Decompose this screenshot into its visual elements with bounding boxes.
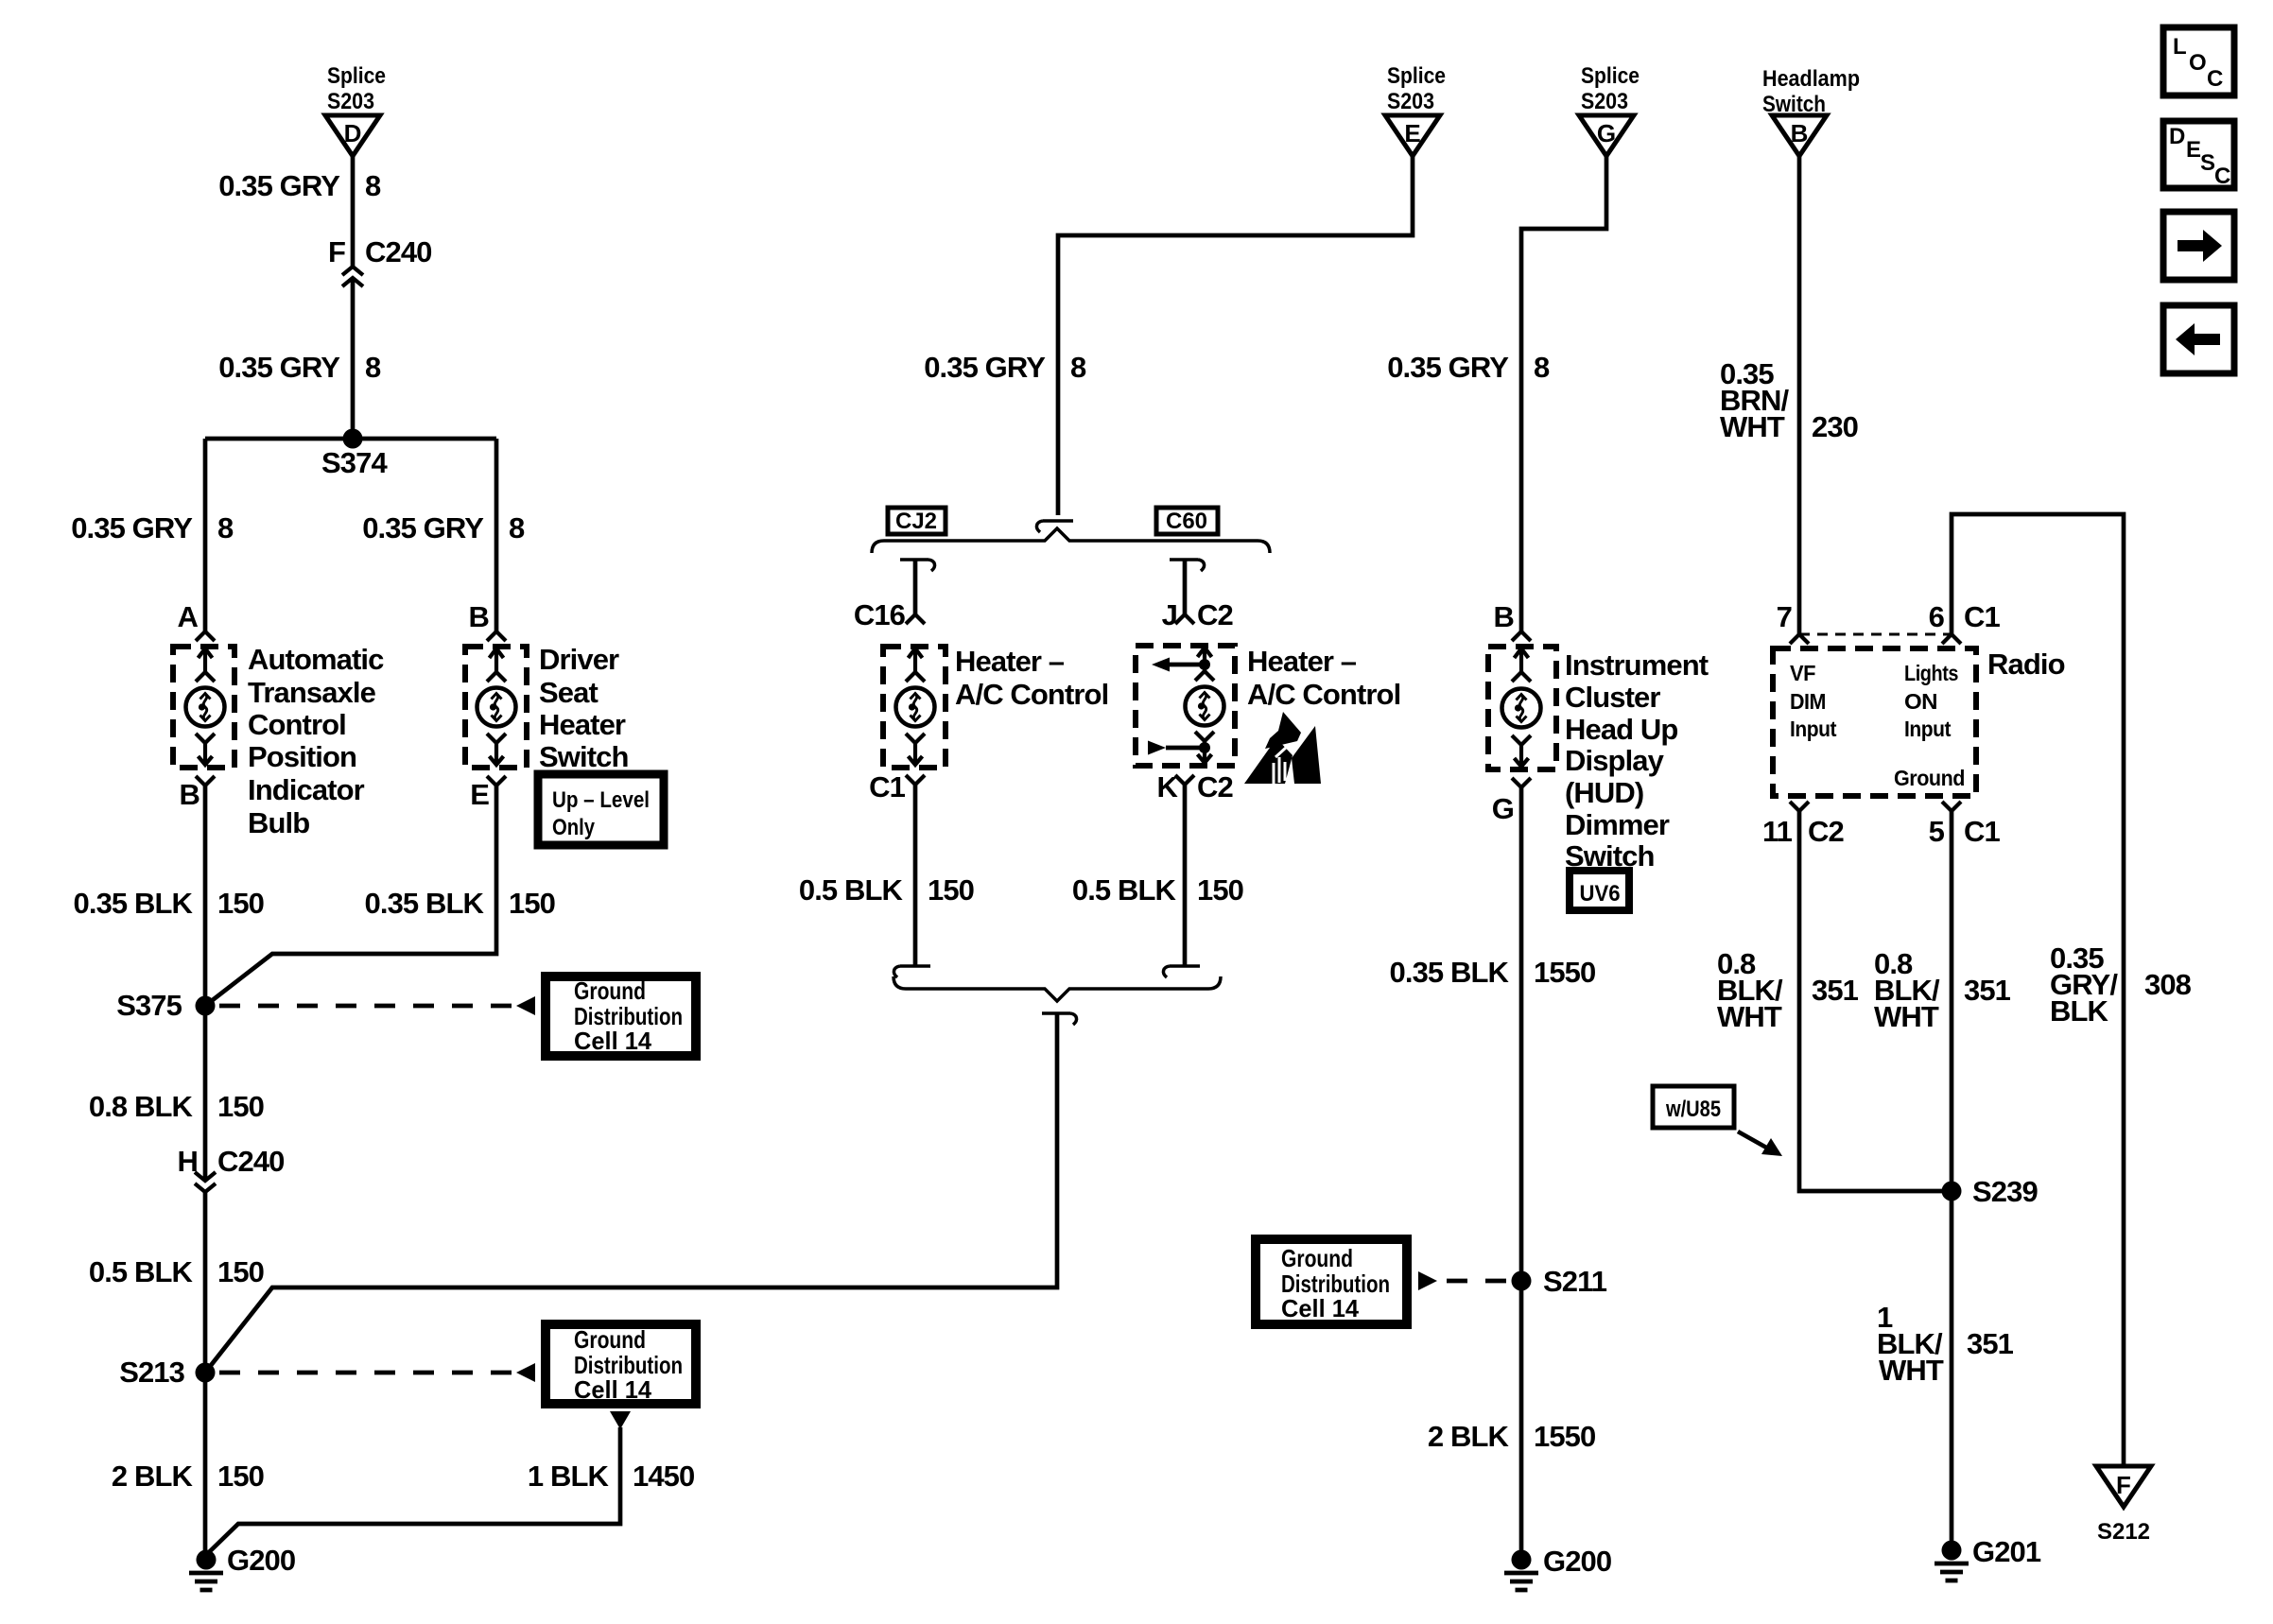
wire E splice to harness [1058, 156, 1413, 515]
pin 7 chevron [1790, 634, 1809, 644]
svg-text:Cell 14: Cell 14 [574, 1375, 652, 1404]
svg-text:WHT: WHT [1879, 1354, 1944, 1387]
svg-text:Instrument: Instrument [1565, 648, 1709, 682]
svg-text:C240: C240 [365, 235, 432, 268]
svg-text:S374: S374 [321, 446, 388, 479]
svg-text:D: D [2169, 124, 2185, 149]
svg-text:0.5 BLK: 0.5 BLK [89, 1255, 194, 1288]
wire S213 to G200 [203, 1373, 208, 1555]
harness stub curl [1036, 521, 1073, 532]
arrow w/U85 [1738, 1132, 1782, 1156]
splice junction S375 [116, 989, 215, 1022]
svg-text:S375: S375 [116, 989, 182, 1022]
svg-text:Splice: Splice [1581, 63, 1640, 89]
wire stub to C16 [913, 560, 918, 614]
svg-text:0.5 BLK: 0.5 BLK [1072, 873, 1177, 907]
wire C240 to S374 [351, 278, 356, 439]
pin B chevron (HUD) [1512, 631, 1531, 641]
svg-text:2 BLK: 2 BLK [112, 1460, 194, 1493]
wire G splice to HUD [1521, 156, 1606, 631]
svg-text:8: 8 [365, 351, 381, 384]
svg-text:Input: Input [1790, 717, 1837, 741]
label 0.5 BLK 150 (left heater) [799, 873, 974, 907]
label 0.35 GRY 8 (HUD feed) [1387, 351, 1550, 384]
pin K chevron [1175, 775, 1194, 785]
svg-text:S203: S203 [1581, 89, 1628, 114]
svg-text:C1: C1 [1964, 600, 2000, 633]
svg-text:150: 150 [217, 887, 264, 920]
svg-text:A/C Control: A/C Control [955, 678, 1108, 711]
svg-text:351: 351 [1964, 974, 2011, 1007]
label 0.8 BLK/WHT 351 (pin 5) [1874, 947, 2011, 1033]
pin 11 label [1762, 815, 1844, 848]
svg-text:Heater –: Heater – [1247, 645, 1357, 678]
wire radio feed [1952, 514, 2124, 1466]
svg-text:VF: VF [1790, 661, 1815, 685]
svg-text:S211: S211 [1543, 1265, 1607, 1298]
svg-text:Input: Input [1904, 717, 1952, 741]
svg-text:C2: C2 [1197, 770, 1233, 803]
label Automatic Transaxle Control Position Indicator Bulb [248, 643, 384, 839]
label 0.35 BLK 150 (col A) [74, 887, 265, 920]
switch S1 Driver Seat Heater Switch [465, 647, 527, 768]
svg-text:B: B [469, 600, 490, 633]
label 0.35 GRY 8 (col B) [362, 511, 525, 544]
svg-text:8: 8 [365, 169, 381, 202]
svg-text:Automatic: Automatic [248, 643, 384, 676]
wire G to S211 [1519, 787, 1524, 1281]
svg-text:8: 8 [1070, 351, 1086, 384]
label 0.8 BLK 150 [89, 1090, 264, 1123]
svg-text:UV6: UV6 [1580, 881, 1621, 907]
splice triangle E [1385, 115, 1440, 156]
label 0.35 BRN/WHT 230 [1720, 357, 1858, 443]
svg-text:Splice: Splice [1387, 63, 1446, 89]
svg-text:Display: Display [1565, 744, 1665, 777]
pin 11 chevron [1790, 802, 1809, 811]
svg-text:C: C [2207, 66, 2223, 92]
pin B chevron (bulb out) [196, 776, 215, 786]
svg-text:C1: C1 [869, 770, 905, 803]
svg-text:150: 150 [217, 1460, 264, 1493]
svg-text:A: A [178, 600, 199, 633]
svg-text:A/C Control: A/C Control [1247, 678, 1400, 711]
wire B out of bulb [203, 786, 208, 1006]
wire headlamp B to pin 7 [1797, 156, 1802, 634]
harness brace lower [894, 976, 1221, 1001]
svg-text:230: 230 [1812, 410, 1858, 443]
splice S203 label (E) [1387, 63, 1446, 114]
pin C1 chevron [906, 775, 925, 785]
label 0.35 GRY 8 (lower) [218, 351, 381, 384]
svg-text:150: 150 [1197, 873, 1243, 907]
dashed reference S213 to ground distribution [219, 1363, 535, 1382]
ground G200 (right) [1504, 1545, 1611, 1590]
splice junction S239 [1942, 1175, 2039, 1208]
svg-text:C2: C2 [1808, 815, 1844, 848]
svg-text:E: E [1404, 119, 1420, 147]
svg-text:S239: S239 [1972, 1175, 2038, 1208]
harness brace upper [872, 528, 1270, 553]
svg-text:G: G [1597, 119, 1616, 147]
wire C1 down [913, 785, 918, 966]
wire S211 to G200 [1519, 1281, 1524, 1560]
splice triangle F S212 [2096, 1466, 2151, 1545]
connector H C240 [178, 1145, 285, 1192]
pin 5 label [1929, 815, 2001, 848]
svg-text:Ground: Ground [574, 1325, 646, 1354]
wire E out of switch to S375 [205, 786, 496, 1006]
svg-text:S213: S213 [119, 1356, 184, 1389]
reference box Ground Distribution Cell 14 (S213) [546, 1324, 696, 1404]
svg-text:C16: C16 [854, 598, 906, 631]
svg-text:Ground: Ground [1281, 1244, 1353, 1272]
label 0.35 BLK 150 (col B) [365, 887, 556, 920]
svg-text:0.35 GRY: 0.35 GRY [924, 351, 1046, 384]
svg-text:ON: ON [1904, 689, 1937, 714]
svg-text:G200: G200 [1543, 1545, 1611, 1578]
pin 6 label [1929, 600, 2001, 633]
svg-text:150: 150 [217, 1255, 264, 1288]
svg-text:7: 7 [1777, 600, 1792, 633]
svg-text:G201: G201 [1972, 1535, 2041, 1568]
lamp U3 Heater A/C Control (right) [1136, 646, 1235, 766]
bulb U1 Automatic Transaxle Control Position Indicator Bulb [173, 647, 234, 768]
pin 6 chevron [1942, 634, 1961, 644]
svg-text:G200: G200 [227, 1544, 295, 1577]
svg-text:11: 11 [1762, 815, 1793, 848]
svg-text:C1: C1 [1964, 815, 2000, 848]
svg-text:WHT: WHT [1717, 1000, 1782, 1033]
pin E chevron [487, 776, 506, 786]
nav box arrow left [2163, 305, 2234, 373]
connector box C60 [1156, 508, 1218, 534]
svg-text:8: 8 [509, 511, 525, 544]
pin G chevron (HUD) [1512, 778, 1531, 787]
note box Up-Level Only [538, 774, 664, 845]
svg-text:0.35 BLK: 0.35 BLK [1390, 956, 1510, 989]
svg-text:Ground: Ground [574, 976, 646, 1005]
svg-text:0.35 GRY: 0.35 GRY [362, 511, 484, 544]
splice junction S213 [119, 1356, 215, 1389]
svg-text:0.8 BLK: 0.8 BLK [89, 1090, 194, 1123]
svg-text:S203: S203 [327, 89, 374, 114]
option box w/U85 [1653, 1086, 1734, 1128]
svg-text:8: 8 [217, 511, 234, 544]
label 0.35 GRY/BLK 308 [2050, 942, 2192, 1028]
svg-text:0.35 GRY: 0.35 GRY [1387, 351, 1509, 384]
label 2 BLK 150 [112, 1460, 264, 1493]
pin K label [1157, 770, 1233, 803]
svg-text:0.35 BLK: 0.35 BLK [74, 887, 194, 920]
svg-text:Ground: Ground [1894, 766, 1965, 790]
label 0.35 GRY 8 (col A) [71, 511, 234, 544]
pin J chevron [1175, 614, 1194, 624]
svg-text:5: 5 [1929, 815, 1945, 848]
harness stub curl lower [1042, 1013, 1077, 1025]
label 0.5 BLK 150 [89, 1255, 264, 1288]
label 0.35 BLK 1550 [1390, 956, 1596, 989]
splice triangle D [325, 115, 380, 156]
svg-text:O: O [2189, 50, 2207, 76]
splice triangle B (headlamp) [1772, 115, 1827, 156]
ground G201 [1935, 1535, 2041, 1581]
svg-text:S: S [2200, 150, 2215, 176]
wire S374 to A [203, 439, 208, 631]
svg-text:E: E [2186, 137, 2201, 163]
label 0.35 GRY 8 (heater feed) [924, 351, 1086, 384]
svg-text:8: 8 [1534, 351, 1550, 384]
component box Radio (VF DIM input) [1773, 648, 1976, 796]
label Instrument Cluster Head Up Display (HUD) Dimmer Switch [1565, 648, 1709, 872]
reference box Ground Distribution Cell 14 (S211) [1256, 1239, 1407, 1324]
svg-text:Driver: Driver [539, 643, 619, 676]
svg-text:2 BLK: 2 BLK [1428, 1420, 1510, 1453]
wire stub to J [1183, 560, 1188, 614]
svg-text:1450: 1450 [633, 1460, 694, 1493]
svg-text:C240: C240 [217, 1145, 285, 1178]
svg-text:Indicator: Indicator [248, 773, 365, 806]
svg-text:351: 351 [1967, 1327, 2014, 1360]
svg-text:Head Up: Head Up [1565, 713, 1677, 746]
reference box Ground Distribution Cell 14 (S375) [546, 976, 696, 1056]
svg-text:Headlamp: Headlamp [1762, 66, 1860, 92]
svg-text:0.5 BLK: 0.5 BLK [799, 873, 904, 907]
wire harness to S213 [205, 1013, 1057, 1373]
svg-text:Cluster: Cluster [1565, 681, 1660, 714]
svg-text:(HUD): (HUD) [1565, 776, 1643, 809]
splice junction S211 [1512, 1265, 1607, 1298]
svg-text:0.35 GRY: 0.35 GRY [218, 351, 340, 384]
svg-text:Dimmer: Dimmer [1565, 808, 1670, 841]
svg-text:150: 150 [509, 887, 555, 920]
wire S374 horizontal [205, 437, 496, 441]
svg-text:Heater –: Heater – [955, 645, 1065, 678]
svg-text:S212: S212 [2097, 1519, 2150, 1545]
svg-text:L: L [2173, 34, 2187, 60]
svg-text:Seat: Seat [539, 676, 598, 709]
svg-text:0.35 GRY: 0.35 GRY [218, 169, 340, 202]
wire S374 to B [495, 439, 499, 631]
splice S203 label (G) [1581, 63, 1640, 114]
pin 5 chevron [1942, 802, 1961, 811]
label 0.5 BLK 150 (right heater) [1072, 873, 1243, 907]
svg-text:Cell 14: Cell 14 [574, 1027, 652, 1055]
label 0.35 GRY 8 (upper) [218, 169, 381, 202]
dashed reference to S211 [1418, 1271, 1508, 1290]
pin B chevron (switch in) [487, 631, 506, 641]
ESD static sensitive symbol [1244, 712, 1321, 784]
option box UV6 [1570, 871, 1629, 910]
ground G200 (left) [189, 1544, 295, 1590]
svg-text:308: 308 [2144, 968, 2192, 1001]
svg-text:Transaxle: Transaxle [248, 676, 376, 709]
nav box arrow right [2163, 212, 2234, 280]
wire K C2 down [1183, 785, 1188, 966]
svg-text:Radio: Radio [1987, 648, 2065, 681]
svg-text:150: 150 [928, 873, 974, 907]
svg-text:351: 351 [1812, 974, 1859, 1007]
dashed reference S375 to ground distribution [219, 996, 535, 1015]
pin C16 chevron [906, 614, 925, 624]
wire pin 5 to G201 [1950, 811, 1954, 1550]
connector F C240 [328, 235, 432, 286]
svg-text:S203: S203 [1387, 89, 1434, 114]
label 1 BLK/WHT 351 [1877, 1301, 2014, 1387]
label 0.8 BLK/WHT 351 (pin 11) [1717, 947, 1859, 1033]
wire C240 to S213 [203, 1192, 208, 1373]
svg-text:E: E [470, 778, 489, 811]
svg-text:Switch: Switch [539, 740, 629, 773]
splice junction S374 [321, 429, 388, 480]
svg-text:WHT: WHT [1720, 410, 1785, 443]
svg-text:Only: Only [552, 815, 596, 840]
connector box CJ2 [888, 508, 946, 534]
svg-text:J: J [1162, 598, 1177, 631]
connector stub K C2 bottom [1163, 966, 1200, 977]
svg-text:C60: C60 [1166, 509, 1207, 534]
splice triangle G [1579, 115, 1634, 156]
svg-text:w/U85: w/U85 [1665, 1097, 1721, 1122]
label Headlamp Switch [1762, 66, 1860, 117]
svg-text:0.35 BLK: 0.35 BLK [365, 887, 485, 920]
svg-text:CJ2: CJ2 [895, 509, 937, 534]
lamp U2 Heater A/C Control (left) [883, 647, 946, 768]
connector stub J C2 top [1170, 560, 1205, 571]
svg-text:B: B [1494, 600, 1515, 633]
svg-text:Bulb: Bulb [248, 806, 309, 839]
svg-text:DIM: DIM [1790, 689, 1826, 714]
connector stub C16 top [900, 560, 935, 571]
svg-text:BLK: BLK [2050, 994, 2109, 1028]
svg-text:C2: C2 [1197, 598, 1233, 631]
label Driver Seat Heater Switch [539, 643, 629, 773]
svg-text:G: G [1492, 792, 1514, 825]
svg-text:1550: 1550 [1534, 956, 1595, 989]
svg-text:Position: Position [248, 740, 356, 773]
svg-text:Up – Level: Up – Level [552, 787, 650, 813]
wire S375 to C240 [203, 1006, 208, 1179]
svg-text:Cell 14: Cell 14 [1281, 1294, 1360, 1322]
connector stub C1 bottom [894, 966, 930, 977]
svg-text:WHT: WHT [1874, 1000, 1939, 1033]
svg-text:D: D [344, 119, 362, 147]
svg-text:Heater: Heater [539, 708, 626, 741]
svg-text:1550: 1550 [1534, 1420, 1595, 1453]
wire from ground distribution cell down [206, 1411, 631, 1555]
svg-text:F: F [328, 235, 345, 268]
svg-text:0.35 GRY: 0.35 GRY [71, 511, 193, 544]
svg-text:Lights: Lights [1904, 661, 1958, 685]
svg-text:6: 6 [1929, 600, 1945, 633]
svg-text:B: B [180, 778, 200, 811]
svg-text:B: B [1791, 119, 1809, 147]
nav box LOC [2163, 27, 2234, 95]
label Heater A/C Control (left) [955, 645, 1108, 711]
label 1 BLK 1450 [528, 1460, 694, 1493]
svg-text:C: C [2214, 164, 2230, 189]
svg-text:F: F [2116, 1471, 2131, 1499]
label Heater A/C Control (right) [1247, 645, 1400, 711]
pin J label [1162, 598, 1233, 631]
svg-text:150: 150 [217, 1090, 264, 1123]
dashed link pin7 pin6 [1799, 633, 1952, 636]
svg-text:Splice: Splice [327, 63, 386, 89]
label 2 BLK 1550 [1428, 1420, 1595, 1453]
nav box DESC [2163, 121, 2234, 189]
pin A chevron [196, 631, 215, 641]
wire D to C240 [351, 156, 356, 266]
wire pin 11 to S239 [1799, 811, 1952, 1191]
lamp U4 Instrument Cluster HUD Dimmer Switch [1488, 647, 1556, 769]
splice S203 label (D) [327, 63, 386, 114]
svg-text:1 BLK: 1 BLK [528, 1460, 610, 1493]
svg-text:Control: Control [248, 708, 346, 741]
